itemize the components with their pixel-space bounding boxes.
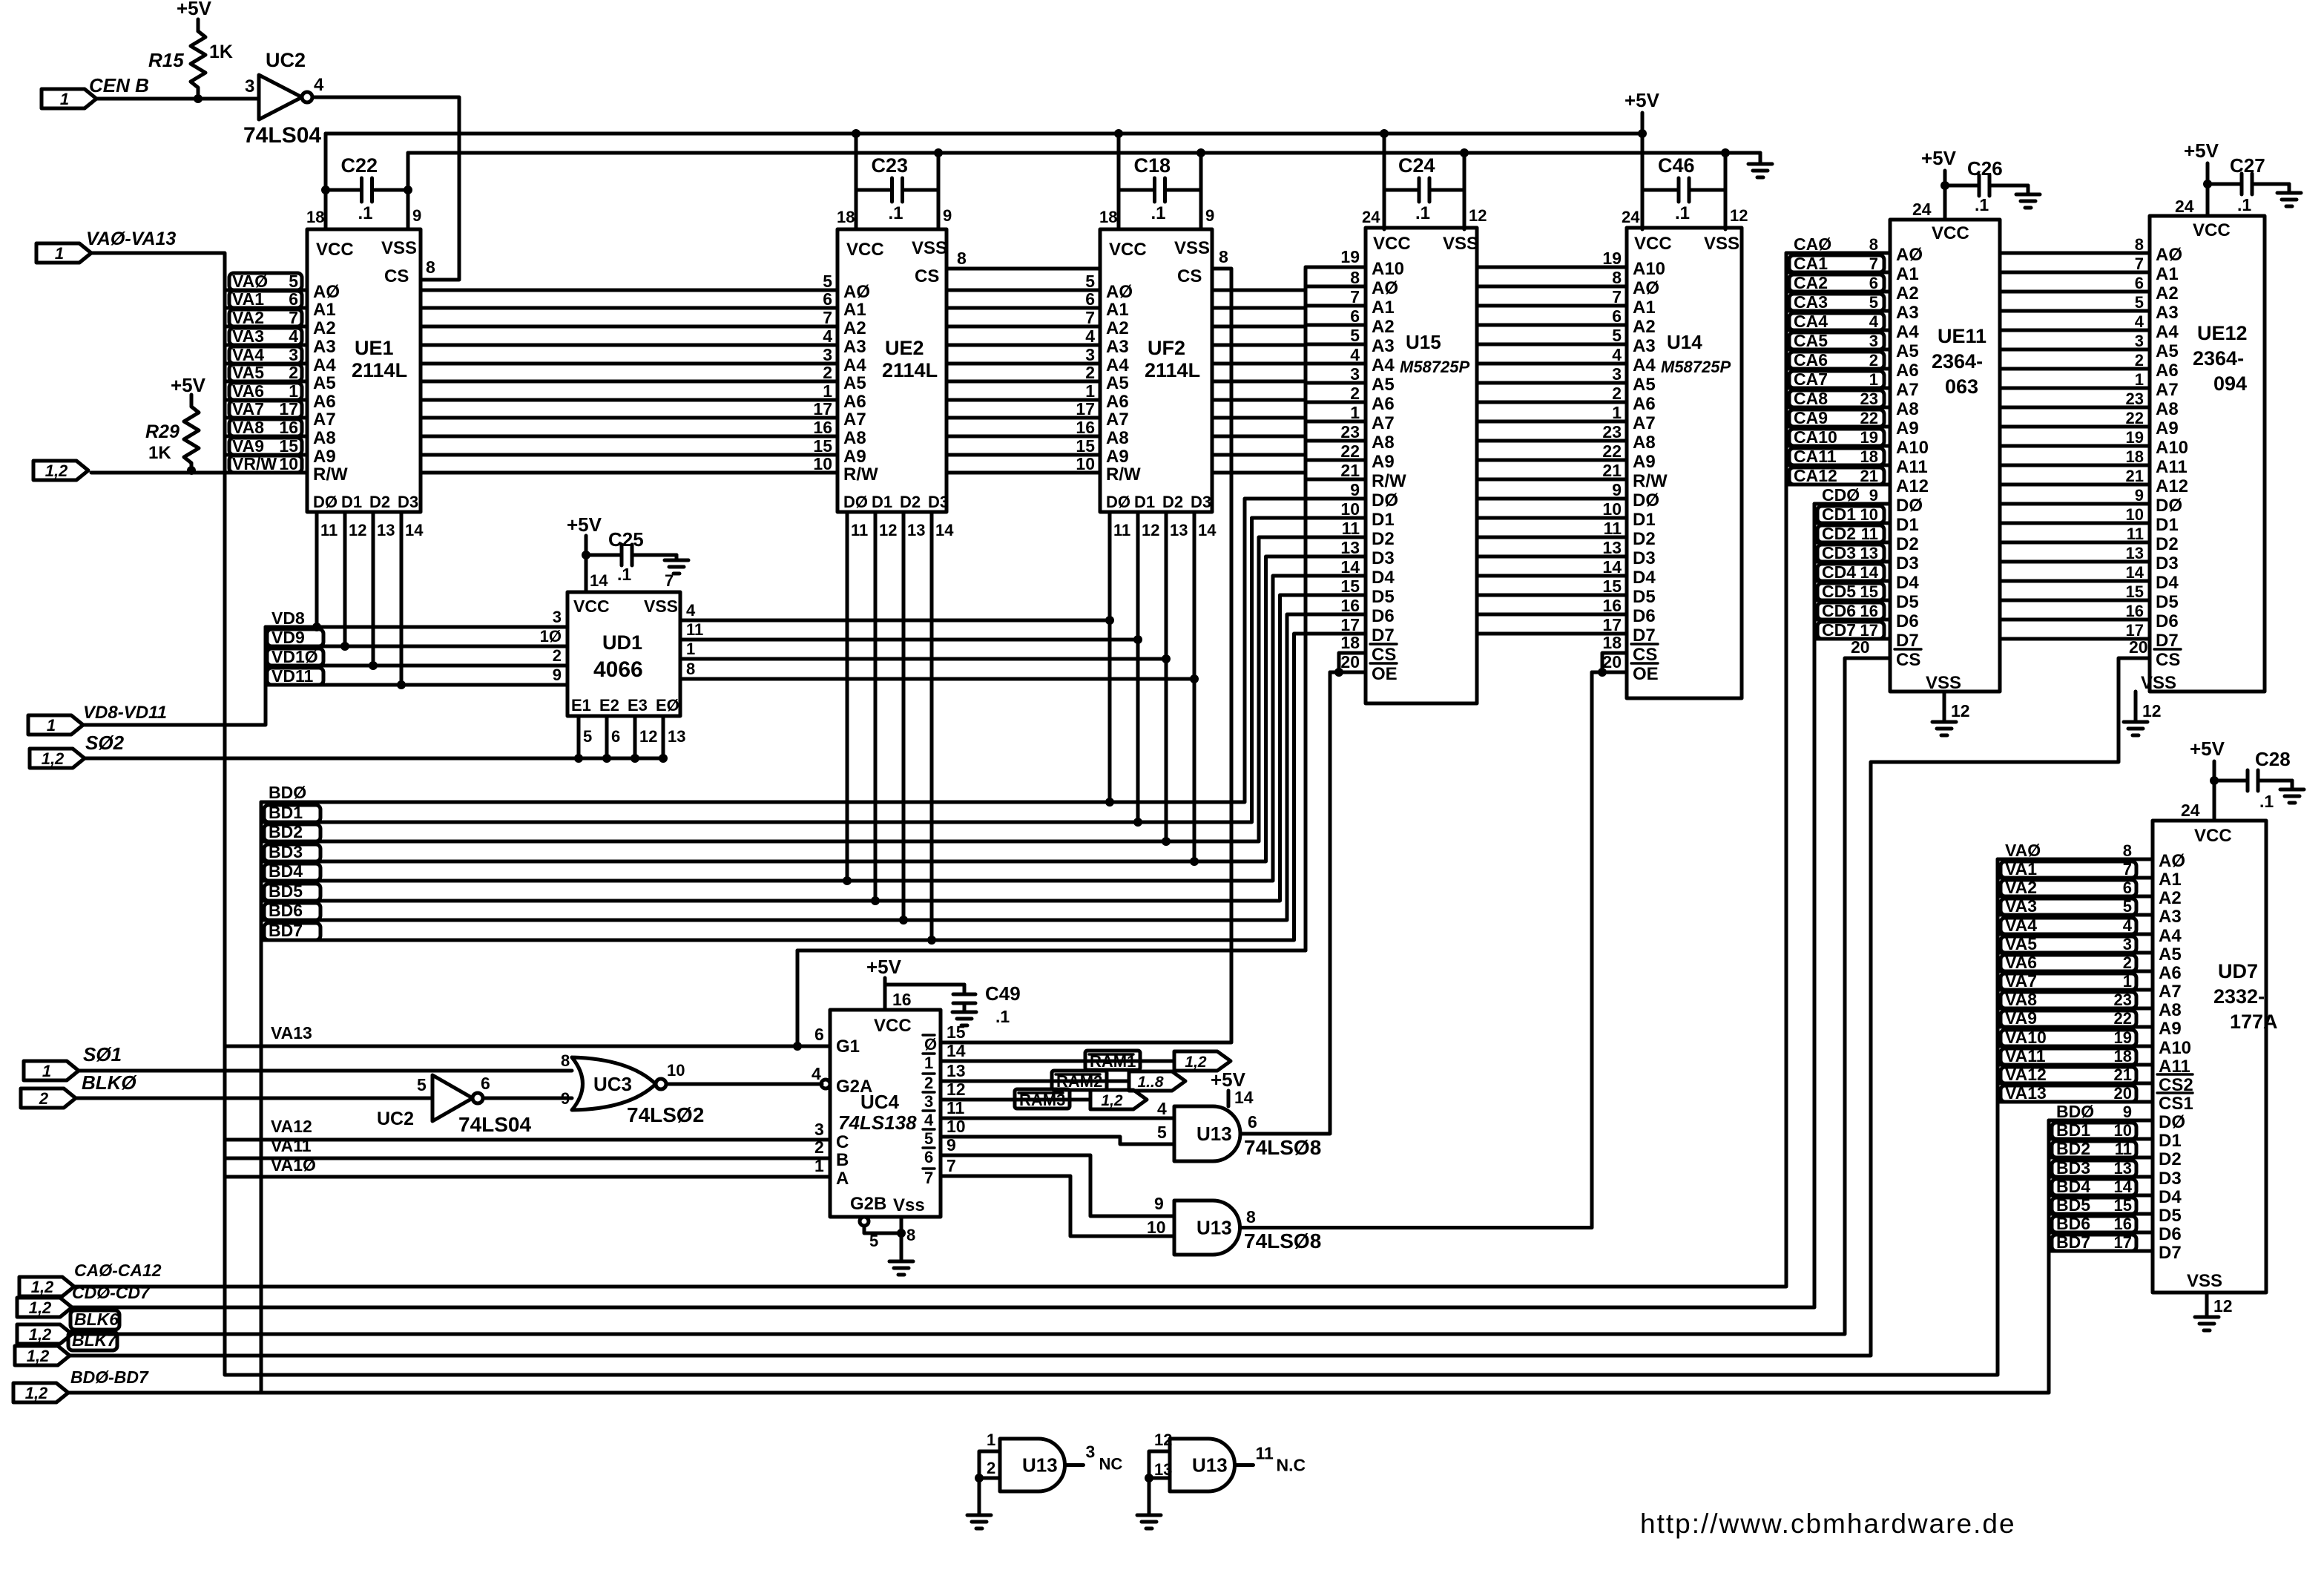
svg-text:A1: A1	[313, 300, 336, 320]
svg-text:VAØ: VAØ	[232, 272, 268, 291]
svg-text:19: 19	[1860, 428, 1878, 447]
svg-text:D1: D1	[1896, 515, 1919, 535]
svg-text:D3: D3	[1191, 493, 1211, 511]
svg-text:1,2: 1,2	[27, 1347, 50, 1365]
svg-text:2364-: 2364-	[2193, 347, 2244, 370]
svg-text:9: 9	[1350, 480, 1360, 499]
svg-text:CS: CS	[1633, 645, 1657, 665]
svg-text:UE12: UE12	[2197, 322, 2248, 344]
svg-text:D2: D2	[2156, 534, 2179, 554]
svg-text:A1: A1	[1372, 298, 1395, 318]
svg-text:7: 7	[1612, 287, 1622, 306]
svg-text:17: 17	[2126, 621, 2144, 640]
svg-text:8: 8	[957, 249, 967, 268]
svg-text:4: 4	[924, 1111, 934, 1129]
svg-text:3: 3	[1869, 332, 1878, 350]
svg-text:14: 14	[1234, 1088, 1254, 1107]
svg-text:4: 4	[1350, 345, 1360, 364]
svg-text:BD7: BD7	[2056, 1232, 2090, 1252]
RAM2 output row	[941, 1071, 1129, 1091]
RAM3 output row	[941, 1089, 1090, 1109]
wire rows U15 to U14	[1477, 249, 1627, 634]
svg-text:A10: A10	[1633, 259, 1665, 279]
svg-text:74LSØ8: 74LSØ8	[1244, 1229, 1321, 1252]
svg-text:.1: .1	[617, 565, 631, 584]
svg-text:1K: 1K	[209, 42, 233, 62]
svg-text:A4: A4	[313, 355, 336, 375]
svg-text:CS: CS	[384, 266, 409, 286]
svg-text:1: 1	[1350, 403, 1360, 422]
svg-text:5: 5	[1350, 326, 1360, 345]
svg-text:21: 21	[2114, 1065, 2132, 1084]
svg-text:VA9: VA9	[2005, 1008, 2037, 1028]
svg-text:+5V: +5V	[567, 513, 602, 536]
wire VA rows UF2 to U15 with jog	[1212, 268, 1366, 480]
svg-text:4: 4	[314, 75, 324, 95]
svg-text:6: 6	[289, 289, 298, 309]
svg-text:1Ø: 1Ø	[540, 627, 562, 646]
svg-text:M58725P: M58725P	[1400, 358, 1470, 376]
wire UC4.7 to U13b input 10	[941, 1176, 1174, 1236]
svg-text:CS1: CS1	[2159, 1094, 2193, 1114]
svg-text:+5V: +5V	[2184, 139, 2219, 162]
svg-text:8: 8	[1350, 268, 1360, 287]
svg-text:DØ: DØ	[1633, 490, 1659, 510]
svg-text:8: 8	[561, 1051, 570, 1070]
svg-text:1: 1	[289, 381, 298, 401]
svg-text:21: 21	[2126, 467, 2144, 485]
svg-text:2: 2	[1350, 384, 1360, 403]
svg-text:+5V: +5V	[866, 956, 902, 978]
svg-text:2: 2	[1085, 363, 1095, 382]
svg-text:A8: A8	[2156, 399, 2179, 419]
wire VA rows UE2 to UF2	[947, 272, 1100, 473]
IC UD1 4066	[567, 592, 680, 716]
svg-text:22: 22	[1340, 441, 1360, 461]
svg-text:CDØ-CD7: CDØ-CD7	[72, 1283, 151, 1302]
svg-text:5: 5	[2123, 897, 2132, 916]
svg-text:B: B	[836, 1150, 849, 1170]
svg-text:E2: E2	[599, 696, 619, 715]
svg-text:VA12: VA12	[2005, 1065, 2047, 1084]
svg-text:VA1: VA1	[232, 289, 264, 309]
svg-text:BLK6: BLK6	[74, 1310, 119, 1329]
svg-text:8: 8	[1869, 235, 1878, 254]
svg-text:+5V: +5V	[1921, 147, 1957, 169]
svg-text:BD5: BD5	[269, 881, 303, 901]
svg-text:15: 15	[1076, 436, 1095, 456]
svg-text:15: 15	[1602, 577, 1622, 596]
svg-text:11: 11	[1256, 1444, 1274, 1463]
svg-text:CD1: CD1	[1822, 505, 1856, 524]
wire CEN B to UC2 input	[96, 94, 259, 103]
svg-text:7: 7	[1085, 308, 1095, 327]
svg-text:10: 10	[2126, 505, 2144, 524]
svg-text:3: 3	[2123, 935, 2132, 953]
svg-text:24: 24	[2175, 197, 2194, 216]
svg-text:15: 15	[813, 436, 832, 456]
svg-text:14: 14	[947, 1041, 966, 1060]
capacitor C28	[2210, 748, 2292, 811]
svg-text:2: 2	[289, 363, 298, 382]
svg-text:A5: A5	[1633, 375, 1656, 395]
svg-text:CA11: CA11	[1794, 447, 1837, 466]
svg-text:9: 9	[553, 666, 562, 684]
ground (top rail right end)	[1748, 153, 1772, 177]
svg-text:A6: A6	[313, 392, 336, 412]
svg-text:13: 13	[1860, 544, 1878, 562]
svg-text:UC2: UC2	[377, 1109, 414, 1129]
svg-text:D7: D7	[1896, 631, 1919, 651]
svg-text:74LSØ8: 74LSØ8	[1244, 1136, 1321, 1159]
svg-text:74LS04: 74LS04	[243, 123, 321, 148]
svg-text:DØ: DØ	[1106, 493, 1130, 511]
svg-text:VSS: VSS	[912, 238, 947, 258]
svg-text:D3: D3	[1633, 548, 1656, 568]
wire VA13 branch row to A10	[793, 950, 1306, 1051]
svg-text:DØ: DØ	[843, 493, 868, 511]
svg-text:14: 14	[590, 571, 608, 590]
wire UE1 D0-D3 columns to VD rows	[312, 512, 424, 689]
svg-text:1: 1	[1085, 381, 1095, 401]
svg-text:VA11: VA11	[2005, 1046, 2046, 1065]
svg-text:A8: A8	[1106, 428, 1129, 448]
svg-text:CD5: CD5	[1822, 582, 1856, 601]
svg-text:A6: A6	[1896, 361, 1919, 381]
svg-text:A7: A7	[1633, 413, 1656, 433]
svg-text:14: 14	[935, 521, 954, 539]
connector 1,2 BLK6	[17, 1310, 119, 1344]
svg-text:A8: A8	[843, 428, 866, 448]
svg-text:9: 9	[561, 1089, 570, 1108]
svg-text:12: 12	[879, 521, 897, 539]
UC4 G2B VSS ground	[860, 1217, 915, 1275]
svg-text:17: 17	[2114, 1233, 2132, 1252]
svg-text:16: 16	[279, 418, 298, 437]
wire UC4.11 to U13a input 4	[941, 1117, 1174, 1120]
svg-text:CS: CS	[1372, 645, 1396, 665]
wires UE11 to UE12	[2000, 235, 2150, 640]
svg-text:19: 19	[1602, 249, 1622, 268]
svg-text:1,2: 1,2	[25, 1384, 48, 1402]
IC UE12 2364-094	[2141, 216, 2265, 693]
svg-text:A3: A3	[1896, 303, 1919, 323]
svg-text:BD2: BD2	[2056, 1139, 2090, 1158]
svg-text:10: 10	[1340, 499, 1360, 519]
svg-text:VCC: VCC	[1109, 240, 1147, 260]
svg-text:1: 1	[2135, 370, 2144, 389]
svg-text:D4: D4	[1372, 568, 1395, 588]
svg-text:2: 2	[553, 646, 562, 665]
svg-text:D2: D2	[1162, 493, 1183, 511]
svg-text:AØ: AØ	[2159, 851, 2185, 871]
svg-text:A1: A1	[843, 300, 866, 320]
svg-text:VA4: VA4	[2005, 916, 2037, 935]
wire SØ1 to UC3	[79, 1069, 572, 1073]
svg-text:BD7: BD7	[269, 921, 303, 940]
svg-text:VD9: VD9	[271, 628, 305, 647]
svg-text:6: 6	[814, 1025, 824, 1044]
svg-text:9: 9	[2135, 486, 2144, 505]
VA label rows to UD7	[1998, 841, 2153, 1103]
svg-text:16: 16	[1340, 596, 1360, 615]
IC UC4 74LS138	[830, 1010, 941, 1217]
svg-text:VSS: VSS	[644, 597, 678, 616]
svg-text:A5: A5	[1106, 373, 1129, 393]
inverter UC2 74LS04 (bottom)	[377, 1074, 531, 1136]
connector 2 BLKØ	[21, 1071, 137, 1108]
svg-text:5: 5	[2135, 293, 2144, 312]
svg-text:A5: A5	[2156, 341, 2179, 361]
svg-text:9: 9	[1612, 480, 1622, 499]
ground UE12 VSS	[2124, 692, 2162, 735]
svg-text:A2: A2	[843, 318, 866, 338]
svg-text:D1: D1	[2156, 515, 2179, 535]
svg-text:.1: .1	[889, 203, 903, 223]
svg-text:1: 1	[1869, 370, 1878, 389]
UC4 left pin numbers	[812, 1025, 824, 1175]
svg-text:19: 19	[1340, 247, 1360, 266]
svg-text:D7: D7	[2156, 631, 2179, 651]
svg-text:1,2: 1,2	[1101, 1092, 1123, 1109]
capacitor C22	[306, 134, 421, 229]
svg-text:5: 5	[289, 272, 298, 291]
svg-text:.1: .1	[358, 203, 373, 223]
svg-text:E1: E1	[571, 696, 591, 715]
svg-text:24: 24	[1622, 208, 1640, 226]
VA11 row	[225, 1136, 830, 1158]
svg-text:C28: C28	[2255, 748, 2291, 770]
IC UE2 2114L	[837, 229, 949, 512]
svg-text:C49: C49	[985, 982, 1021, 1005]
svg-text:12: 12	[1142, 521, 1159, 539]
AND gate U13 (spare c)	[967, 1431, 1122, 1528]
svg-text:11: 11	[686, 620, 703, 639]
svg-text:13: 13	[1602, 538, 1622, 557]
svg-text:CA3: CA3	[1794, 292, 1828, 312]
svg-text:12: 12	[1951, 701, 1970, 720]
svg-text:5: 5	[1085, 272, 1095, 291]
svg-text:D7: D7	[2159, 1243, 2182, 1263]
svg-text:22: 22	[1860, 409, 1878, 427]
svg-text:D6: D6	[1633, 606, 1656, 626]
svg-text:17: 17	[1076, 399, 1095, 418]
svg-text:3: 3	[289, 345, 298, 364]
svg-text:74LS138: 74LS138	[838, 1111, 917, 1134]
svg-text:D3: D3	[1896, 554, 1919, 574]
connector 1,2 BDØ-BD7	[13, 1367, 149, 1402]
svg-text:AØ: AØ	[1372, 278, 1398, 298]
VD8-VD11 rows to UD1	[266, 608, 567, 686]
svg-text:3: 3	[1612, 364, 1622, 384]
svg-text:BDØ: BDØ	[2056, 1102, 2094, 1121]
svg-text:C24: C24	[1398, 154, 1435, 177]
wire BLK6 row to UE11 CS	[72, 637, 1890, 1334]
svg-text:20: 20	[2114, 1084, 2132, 1103]
svg-text:6: 6	[611, 727, 620, 746]
svg-text:D3: D3	[928, 493, 949, 511]
svg-text:A3: A3	[843, 337, 866, 357]
connector 1..8 RAM2	[1129, 1071, 1185, 1091]
svg-text:VSS: VSS	[1704, 234, 1739, 254]
svg-text:UE2: UE2	[885, 337, 924, 359]
svg-text:VSS: VSS	[381, 238, 417, 258]
svg-text:VA1Ø: VA1Ø	[271, 1155, 316, 1175]
svg-text:6: 6	[1869, 274, 1878, 292]
svg-text:13: 13	[1170, 521, 1188, 539]
svg-text:9: 9	[943, 206, 952, 225]
wire U13a output to U15 CS/OE	[1240, 633, 1366, 1134]
svg-text:CA9: CA9	[1794, 408, 1828, 427]
svg-text:A3: A3	[2156, 303, 2179, 323]
svg-text:4: 4	[1157, 1099, 1167, 1118]
svg-text:177A: 177A	[2230, 1011, 2278, 1033]
svg-text:A5: A5	[2159, 945, 2182, 965]
svg-text:.1: .1	[1975, 195, 1989, 214]
svg-text:A10: A10	[2159, 1038, 2191, 1058]
svg-text:D1: D1	[1633, 510, 1656, 530]
svg-text:C: C	[836, 1132, 849, 1152]
svg-text:12: 12	[1154, 1431, 1172, 1449]
svg-text:1,2: 1,2	[45, 462, 68, 480]
svg-text:R/W: R/W	[1633, 471, 1668, 491]
svg-text:1,2: 1,2	[1185, 1054, 1207, 1071]
svg-text:21: 21	[1340, 461, 1360, 480]
svg-text:CS: CS	[915, 266, 939, 286]
svg-text:8: 8	[1612, 268, 1622, 287]
svg-text:1: 1	[55, 244, 64, 263]
svg-text:11: 11	[1113, 521, 1130, 539]
power +5V R15	[177, 0, 212, 19]
svg-text:CD3: CD3	[1822, 543, 1856, 562]
svg-text:1: 1	[924, 1054, 933, 1072]
ground C49	[952, 1012, 976, 1025]
svg-text:A5: A5	[313, 373, 336, 393]
svg-text:VCC: VCC	[1932, 223, 1969, 243]
svg-text:17: 17	[813, 399, 832, 418]
svg-text:A9: A9	[1106, 447, 1129, 467]
svg-text:19: 19	[2114, 1028, 2132, 1047]
svg-text:A5: A5	[843, 373, 866, 393]
wire UC3 out to G2A	[666, 1080, 830, 1088]
svg-text:12: 12	[1730, 206, 1748, 225]
svg-text:VA9: VA9	[232, 436, 264, 456]
svg-text:A6: A6	[1106, 392, 1129, 412]
svg-text:15: 15	[279, 436, 298, 456]
svg-text:E3: E3	[628, 696, 648, 715]
svg-text:A3: A3	[1372, 336, 1395, 356]
svg-text:4: 4	[686, 601, 696, 620]
svg-text:VCC: VCC	[2193, 220, 2231, 240]
wire UC4.9 to U13b input 9	[941, 1155, 1174, 1216]
svg-text:Ø: Ø	[924, 1035, 937, 1054]
svg-text:VA13: VA13	[271, 1023, 312, 1042]
svg-text:G2B: G2B	[850, 1194, 886, 1214]
svg-text:VAØ-VA13: VAØ-VA13	[86, 229, 176, 249]
svg-text:VA6: VA6	[232, 381, 264, 401]
svg-text:6: 6	[924, 1148, 933, 1166]
svg-text:BDØ: BDØ	[269, 783, 306, 802]
wire BD connector row	[68, 1391, 2049, 1395]
svg-text:A12: A12	[2156, 476, 2188, 496]
svg-text:3: 3	[1350, 364, 1360, 384]
svg-text:A7: A7	[313, 410, 336, 430]
UD1 enable pins to SØ2	[574, 716, 685, 763]
svg-text:VSS: VSS	[2187, 1271, 2222, 1291]
svg-text:1: 1	[1612, 403, 1622, 422]
wire SØ2 row	[85, 757, 663, 761]
svg-text:.1: .1	[1151, 203, 1166, 223]
svg-text:A: A	[836, 1169, 849, 1189]
svg-text:D6: D6	[1372, 606, 1395, 626]
UC4 right pin numbers	[947, 1022, 966, 1175]
svg-text:.1: .1	[1415, 203, 1430, 223]
svg-text:A9: A9	[313, 447, 336, 467]
svg-text:.1: .1	[995, 1007, 1010, 1026]
svg-text:A2: A2	[1896, 283, 1919, 303]
svg-text:AØ: AØ	[843, 282, 870, 302]
svg-text:U13: U13	[1196, 1217, 1232, 1239]
svg-text:12: 12	[349, 521, 366, 539]
svg-text:D7: D7	[1633, 625, 1656, 646]
svg-text:BD2: BD2	[269, 822, 303, 841]
svg-text:DØ: DØ	[1372, 490, 1398, 510]
connector 1,2 RAM1	[1174, 1051, 1231, 1071]
svg-text:VSS: VSS	[1443, 234, 1478, 254]
svg-text:8: 8	[906, 1226, 915, 1244]
power rail ground (top)	[408, 148, 1760, 157]
svg-text:17: 17	[1602, 615, 1622, 634]
wire U13b output to U14 CS/OE	[1240, 633, 1627, 1228]
svg-text:A1: A1	[1106, 300, 1129, 320]
svg-text:A9: A9	[843, 447, 866, 467]
svg-text:CA2: CA2	[1794, 273, 1828, 292]
svg-text:D2: D2	[1896, 534, 1919, 554]
svg-text:11: 11	[1604, 519, 1622, 538]
svg-text:21: 21	[1602, 461, 1622, 480]
power +5V UE11	[1912, 147, 1957, 220]
svg-text:22: 22	[2126, 409, 2144, 427]
svg-text:1: 1	[814, 1156, 824, 1175]
svg-text:10: 10	[1076, 454, 1095, 473]
svg-text:UC3: UC3	[593, 1073, 632, 1095]
svg-text:20: 20	[1602, 652, 1622, 671]
svg-text:CS: CS	[1177, 266, 1202, 286]
svg-text:VA7: VA7	[2005, 971, 2037, 991]
svg-text:14: 14	[2114, 1178, 2133, 1196]
svg-text:D5: D5	[2156, 592, 2179, 612]
svg-text:A4: A4	[2156, 322, 2179, 342]
svg-text:U13: U13	[1192, 1454, 1228, 1477]
svg-text:15: 15	[2114, 1196, 2132, 1215]
svg-text:2: 2	[1612, 384, 1622, 403]
svg-text:D1: D1	[2159, 1131, 2182, 1151]
IC U14 M58725P	[1627, 228, 1742, 698]
svg-text:6: 6	[2123, 879, 2132, 897]
svg-text:21: 21	[1860, 467, 1878, 485]
svg-text:17: 17	[1340, 615, 1360, 634]
svg-text:16: 16	[1602, 596, 1622, 615]
svg-text:D1: D1	[872, 493, 892, 511]
svg-text:D5: D5	[1372, 587, 1395, 607]
svg-text:VA8: VA8	[232, 418, 264, 437]
VA10 row	[225, 1155, 830, 1177]
svg-text:4: 4	[823, 326, 832, 346]
svg-text:22: 22	[1602, 441, 1622, 461]
IC UE1 2114L	[307, 229, 421, 512]
svg-text:7: 7	[924, 1169, 933, 1187]
svg-text:G1: G1	[836, 1037, 860, 1057]
